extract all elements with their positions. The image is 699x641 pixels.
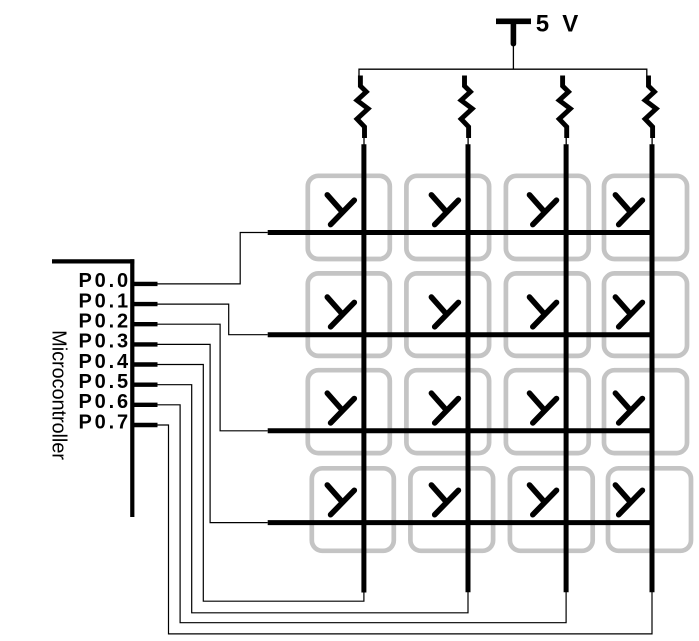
svg-text:P0.7: P0.7 bbox=[79, 411, 131, 433]
key S33 bbox=[506, 370, 589, 453]
pin stub P0.4 bbox=[134, 362, 158, 366]
switch symbol S11 bbox=[327, 195, 354, 225]
svg-text:5 V: 5 V bbox=[536, 11, 582, 38]
pin stub P0.6 bbox=[134, 403, 158, 407]
switch symbol S42 bbox=[431, 485, 458, 515]
column line C3 bbox=[564, 144, 569, 592]
wire P0.0 to row 1 bbox=[158, 233, 268, 284]
switch symbol S24 bbox=[615, 297, 642, 327]
microcontroller box top edge bbox=[52, 259, 134, 263]
wire P0.1 to row 2 bbox=[158, 304, 268, 335]
switch symbol S21 bbox=[327, 297, 354, 327]
resistor R4 bbox=[645, 76, 656, 146]
switch symbol S41 bbox=[327, 485, 354, 515]
key S34 bbox=[604, 370, 687, 453]
svg-text:P0.1: P0.1 bbox=[79, 290, 131, 312]
svg-text:P0.0: P0.0 bbox=[79, 270, 131, 292]
switch symbol S22 bbox=[431, 297, 458, 327]
key S42 bbox=[410, 468, 493, 551]
switch symbol S44 bbox=[615, 485, 642, 515]
row line R3 bbox=[268, 428, 654, 433]
key S21 bbox=[308, 273, 390, 356]
key S11 bbox=[308, 176, 390, 259]
microcontroller box right edge bbox=[130, 259, 134, 517]
switch symbol S33 bbox=[530, 393, 557, 423]
column line C1 bbox=[361, 144, 366, 592]
svg-text:P0.5: P0.5 bbox=[79, 371, 131, 393]
svg-text:P0.2: P0.2 bbox=[79, 311, 131, 333]
row line R4 bbox=[268, 520, 654, 525]
pin stub P0.2 bbox=[134, 322, 158, 326]
svg-text:P0.4: P0.4 bbox=[79, 351, 131, 373]
row line R2 bbox=[268, 332, 654, 337]
wire P0.6 to column 3 bbox=[158, 405, 567, 623]
pin stub P0.3 bbox=[134, 342, 158, 346]
resistor R3 bbox=[559, 76, 570, 146]
key S32 bbox=[406, 370, 489, 453]
switch symbol S31 bbox=[327, 393, 354, 423]
pin stub P0.0 bbox=[134, 282, 158, 286]
key S14 bbox=[604, 176, 687, 259]
key S24 bbox=[604, 273, 687, 356]
wire P0.3 to row 4 bbox=[158, 344, 268, 522]
resistor R1 bbox=[357, 76, 368, 146]
key S23 bbox=[506, 273, 589, 356]
switch symbol S34 bbox=[615, 393, 642, 423]
wire P0.4 to column 1 bbox=[158, 365, 364, 602]
key S43 bbox=[510, 468, 593, 551]
5V supply symbol bbox=[496, 21, 531, 69]
key S31 bbox=[308, 370, 390, 453]
wire P0.7 to column 4 bbox=[158, 425, 653, 634]
wire P0.2 to row 3 bbox=[158, 324, 268, 431]
resistor R2 bbox=[461, 76, 472, 146]
column line C4 bbox=[650, 144, 655, 592]
key S44 bbox=[608, 468, 691, 551]
supply bus wire bbox=[359, 69, 647, 75]
svg-text:P0.3: P0.3 bbox=[79, 331, 131, 353]
key S22 bbox=[406, 273, 489, 356]
pin stub P0.1 bbox=[134, 302, 158, 306]
key squares (gray rounded outlines) bbox=[308, 176, 691, 551]
key S41 bbox=[312, 468, 394, 551]
pin stub P0.5 bbox=[134, 383, 158, 387]
pin stub P0.7 bbox=[134, 423, 158, 427]
wire P0.5 to column 2 bbox=[158, 385, 469, 613]
switch symbol S12 bbox=[431, 195, 458, 225]
column line C2 bbox=[466, 144, 471, 592]
switch symbol S43 bbox=[530, 485, 557, 515]
key S13 bbox=[506, 176, 589, 259]
switch symbol S13 bbox=[530, 195, 557, 225]
switch symbol S23 bbox=[530, 297, 557, 327]
svg-text:Microcontroller: Microcontroller bbox=[48, 330, 70, 460]
key S12 bbox=[406, 176, 489, 259]
switch contact symbols bbox=[327, 195, 642, 515]
switch symbol S14 bbox=[615, 195, 642, 225]
switch symbol S32 bbox=[431, 393, 458, 423]
svg-text:P0.6: P0.6 bbox=[79, 391, 131, 413]
row line R1 bbox=[268, 230, 654, 235]
